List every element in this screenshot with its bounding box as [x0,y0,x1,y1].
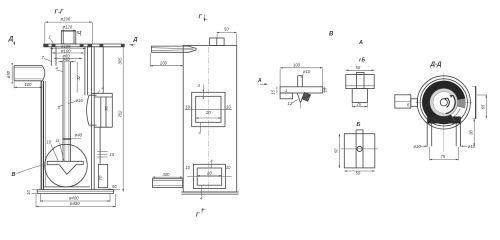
tube disc ø40 [63,138,82,140]
dim ø430 [36,194,116,207]
top box [210,38,225,46]
svg-text:52: 52 [77,30,82,35]
dim 20 upper window [196,110,221,119]
dim 15 В right [323,87,328,93]
svg-text:200: 200 [159,60,168,65]
svg-text:Д: Д [8,36,14,43]
svg-text:50: 50 [356,170,361,175]
dark ring bottom chord [427,117,461,124]
tube funnel tip [59,165,76,175]
svg-text:100: 100 [25,82,33,87]
Б strip [356,130,363,168]
dim 200 top plate [150,53,183,67]
svg-text:Б: Б [362,58,366,64]
dim ø100 [52,48,84,53]
svg-text:75: 75 [441,154,446,159]
svg-text:20: 20 [206,171,212,176]
dim 4 upper window top [198,83,205,99]
small swirl arrow center [444,98,449,108]
dim 50 Б bottom [344,170,375,175]
dim ø50 pipe [6,63,13,83]
svg-text:10: 10 [185,104,190,109]
svg-text:30: 30 [468,130,473,135]
Б body rect [344,134,375,168]
svg-text:10: 10 [185,165,190,170]
dim 20 А bottom [352,102,367,108]
svg-text:300: 300 [163,172,171,177]
flange gussets (dark) [44,44,125,47]
svg-text:ø400: ø400 [69,196,79,201]
vortex chamber lens [87,95,97,125]
upper window centerline [185,108,232,110]
svg-text:Д: Д [132,37,137,43]
label Б with arrow [359,58,366,64]
dim 65 right [477,95,487,119]
swirl arrow in wedge [446,95,455,114]
dim ø10 left leg [414,144,428,149]
svg-text:ø40: ø40 [63,57,71,62]
view label А [358,40,363,46]
svg-text:ø196: ø196 [61,17,71,22]
left nozzle [395,95,418,108]
В funnel [297,93,304,109]
big circle (float chamber) [45,144,88,187]
leader 1 [49,35,54,44]
center circle [440,99,447,106]
svg-text:100: 100 [293,63,301,68]
dim ø105 [50,44,85,49]
leaders 10 11 [47,138,65,161]
dim 300 bottom pipe [152,172,182,178]
upper window outer [192,92,225,126]
section mark Г bottom [196,209,206,219]
А lower rect [352,89,367,103]
rotated dim 32 [76,62,81,93]
dim 4 upper window bottom [199,122,202,135]
dims 10 10 upper window [185,104,231,109]
svg-text:ø100: ø100 [61,48,71,53]
А stub top [356,72,364,74]
lower window inner [197,168,222,185]
inner vertical line right chamber [102,47,104,93]
wedge step arcs [451,106,465,121]
dim ø400 [40,194,110,202]
top plate left [152,46,197,52]
svg-text:305: 305 [118,57,123,65]
svg-text:15: 15 [110,152,115,157]
dim 100 В [280,63,323,87]
right vertical dim line 752 [118,44,124,192]
centerlines [416,74,473,153]
top cap neck [61,31,76,44]
lower right bracket ticks [97,152,115,157]
svg-text:10: 10 [47,140,52,145]
В hatched wedge (tilted plate) [302,92,311,101]
svg-text:ø10: ø10 [303,69,311,74]
upper left wall [51,47,56,66]
dim 52 right of cap [77,30,82,36]
leader 7 [42,55,52,62]
body right wall (double) [92,44,95,190]
svg-text:65: 65 [480,104,485,109]
svg-text:В: В [12,172,16,178]
svg-text:ø10: ø10 [468,144,476,149]
Б centerline [341,148,378,150]
svg-text:20: 20 [205,110,211,115]
right edge plate [472,86,475,119]
rotated dim 70 in chamber [104,106,109,111]
second circle [420,79,467,126]
svg-text:50: 50 [112,184,117,189]
svg-text:10: 10 [26,190,31,195]
inner chamber wall right (double) [85,47,88,95]
dim 50 Б left [333,134,340,168]
svg-text:А: А [358,40,363,46]
bottom pipe [152,179,182,188]
outer circle [417,76,470,129]
inner gray ring [430,88,458,116]
upper window inner [196,96,221,122]
base plate [37,190,113,194]
svg-text:10: 10 [226,165,231,170]
right chamber top plate [92,93,113,97]
dim 30 lower right [468,119,475,146]
dim 75 bottom [430,147,459,160]
float cross bar [47,161,83,164]
svg-text:70: 70 [98,175,103,180]
dim 50 top box [217,27,237,46]
section mark Д right [130,37,138,46]
svg-text:ø10: ø10 [414,144,422,149]
svg-text:ø120: ø120 [63,25,73,30]
gray sub-wedge in gap [457,99,465,108]
dim 4 above chamber [98,86,105,93]
dim ø10 right leg [461,144,476,149]
lower window outer [193,164,225,188]
svg-text:10: 10 [226,104,231,109]
svg-text:50: 50 [224,27,229,32]
svg-text:ø430: ø430 [70,201,80,206]
right chamber box [94,93,112,127]
dim 100 under pipe [14,82,42,89]
svg-text:20: 20 [356,102,362,107]
svg-text:15: 15 [271,90,276,95]
svg-text:50: 50 [356,65,361,70]
dim ø40 tube [58,57,76,63]
В stub [298,76,303,87]
label В with leader [12,165,45,179]
section mark Д left [8,36,15,46]
svg-text:В: В [329,32,334,38]
body bottom flange [181,192,238,194]
legs [427,122,460,147]
svg-text:12: 12 [288,101,293,106]
svg-text:1: 1 [49,35,51,40]
top flange plate [44,44,125,47]
А bar [346,75,374,89]
svg-text:ø40: ø40 [75,132,83,137]
dim ø196 top overall [45,17,93,44]
dim 10 base left [26,190,37,195]
label А with arrow (left of В view) [257,78,268,85]
dim 12 В bottom [288,100,298,107]
svg-text:ø50: ø50 [6,70,11,78]
dim 50 А [346,65,374,71]
dim ø20 cap [61,25,76,32]
dark ring C (annulus with gap at right) [422,81,465,125]
svg-text:А: А [257,78,262,84]
dim 50 lower right [108,184,120,190]
dim 15 В left [271,87,277,95]
dims lower window [185,158,231,200]
central tube [63,62,71,162]
lower right rect [98,127,108,188]
leader 4 tube [56,65,63,71]
svg-text:752: 752 [118,110,123,118]
lower window centerline [187,175,232,177]
inlet pipe left [14,66,45,81]
svg-text:11: 11 [56,138,60,143]
svg-text:32: 32 [76,75,81,80]
svg-text:Б: Б [357,122,361,128]
section mark Г top [199,15,208,22]
svg-text:70: 70 [104,106,109,111]
В bar [280,87,323,93]
svg-text:1: 1 [285,88,287,93]
lower left wall (dark) [41,81,45,190]
view title Г-Г [55,10,64,16]
body outline [183,46,237,193]
Б center circle [357,146,362,151]
svg-text:Д-Д: Д-Д [430,61,443,68]
centerline [208,47,210,191]
view label В [329,32,334,38]
dim ø40 tube disc label [75,132,83,137]
svg-text:ø16: ø16 [76,98,84,103]
svg-text:15: 15 [323,87,328,92]
base shell bottom line [44,186,90,188]
leader 5 and ø16 [58,98,84,110]
view title Д-Д [430,61,443,68]
dim ø10 В stub [301,69,311,78]
svg-text:Г-Г: Г-Г [55,10,64,16]
В left block [280,88,293,99]
dim ø80 [54,54,82,59]
view label Б [357,122,361,128]
svg-text:50: 50 [333,148,338,153]
